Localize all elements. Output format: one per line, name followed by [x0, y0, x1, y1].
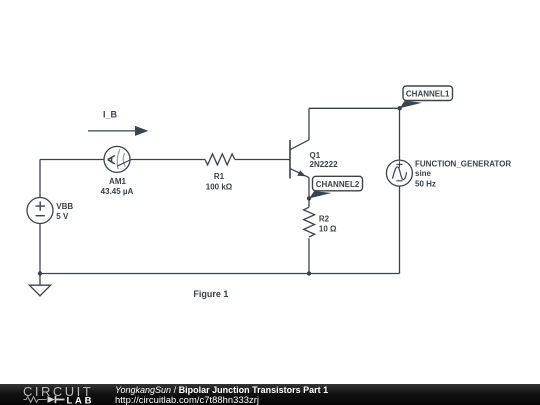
- svg-text:CHANNEL2: CHANNEL2: [316, 180, 360, 189]
- footer url line: [115, 394, 259, 405]
- wire bottom horizontal: [40, 273, 400, 275]
- CircuitLab logo: [0, 384, 110, 405]
- function generator V1: [386, 159, 511, 188]
- svg-text:2N2222: 2N2222: [310, 160, 339, 169]
- resistor R1: [205, 154, 235, 192]
- svg-text:VBB: VBB: [56, 202, 73, 211]
- wire top horizontal from VBB branch to Q1 base: [40, 159, 290, 161]
- node junction dot at ground: [38, 271, 42, 275]
- svg-text:sine: sine: [415, 169, 432, 178]
- caption Figure 1: [193, 289, 228, 299]
- footer bar: [0, 384, 540, 405]
- svg-text:I_B: I_B: [103, 110, 118, 120]
- voltage source VBB: [27, 198, 73, 224]
- wire right vertical (function generator branch): [399, 108, 401, 273]
- transistor Q1 2N2222: [290, 140, 338, 179]
- ammeter AM1: [101, 146, 134, 195]
- current label arrow I_B: [88, 110, 148, 136]
- svg-text:43.45 µA: 43.45 µA: [101, 187, 134, 196]
- svg-text:AM1: AM1: [109, 177, 126, 186]
- node label CHANNEL1: [400, 86, 453, 108]
- svg-text:Q1: Q1: [310, 151, 321, 160]
- svg-text:50 Hz: 50 Hz: [415, 180, 436, 189]
- svg-text:100 kΩ: 100 kΩ: [206, 183, 233, 192]
- resistor R2: [304, 207, 337, 237]
- node junction dot at R2 bottom: [307, 271, 311, 275]
- svg-text:LAB: LAB: [67, 396, 95, 405]
- svg-text:FUNCTION_GENERATOR: FUNCTION_GENERATOR: [415, 159, 511, 168]
- footer credit line: [115, 385, 328, 395]
- svg-text:R2: R2: [319, 215, 330, 224]
- svg-text:Figure 1: Figure 1: [193, 289, 228, 299]
- wire collector vertical: [308, 108, 310, 140]
- ground: [29, 274, 50, 296]
- svg-text:5 V: 5 V: [56, 212, 69, 221]
- node label CHANNEL2: [309, 176, 362, 198]
- wire emitter vertical to R2: [308, 178, 310, 208]
- wire top right horizontal (collector to generator): [309, 107, 400, 109]
- node junction dot at CHANNEL1: [398, 106, 402, 110]
- svg-text:10 Ω: 10 Ω: [319, 225, 337, 234]
- node junction dot at CHANNEL2: [307, 196, 311, 200]
- svg-text:CHANNEL1: CHANNEL1: [406, 90, 450, 99]
- svg-text:R1: R1: [214, 172, 225, 181]
- wire R2 bottom to ground rail: [308, 238, 310, 273]
- wire left vertical branch: [39, 160, 41, 274]
